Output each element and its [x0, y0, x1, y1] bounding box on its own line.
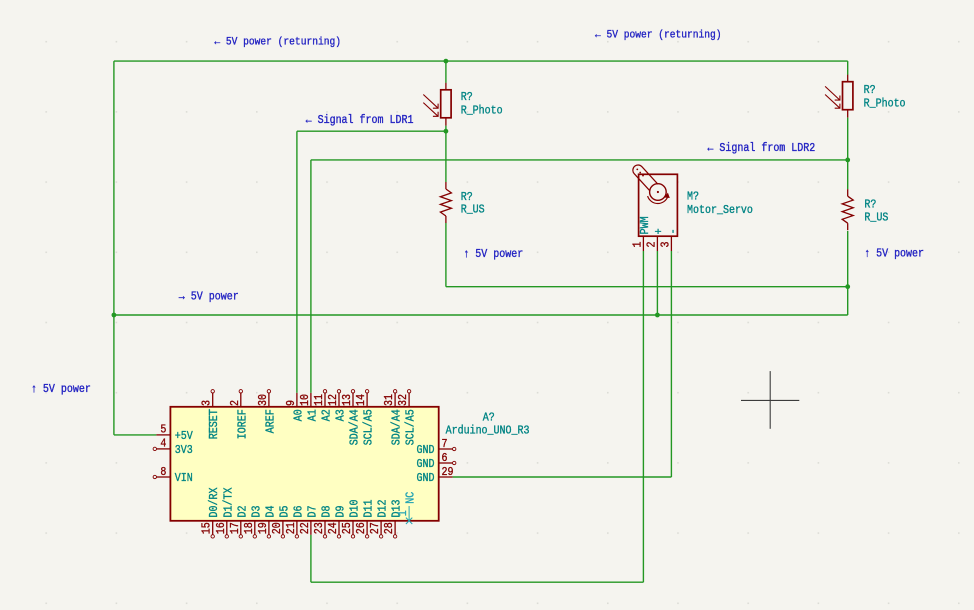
wire bottom horizontal D7-PWM [311, 581, 644, 583]
svg-text:-: - [667, 228, 680, 234]
arduino bottom pin 16 D1/TX [226, 521, 228, 535]
junction servo plus on 5V rail [655, 313, 660, 318]
svg-text:← Signal from LDR1: ← Signal from LDR1 [306, 114, 414, 127]
svg-text:21: 21 [285, 522, 298, 534]
svg-text:13: 13 [341, 394, 354, 406]
arduino top pin 11 A2 [324, 393, 326, 407]
svg-text:3V3: 3V3 [175, 444, 193, 457]
svg-text:A?: A? [483, 412, 495, 425]
wire GND29 to servo minus [453, 476, 672, 478]
svg-text:SCL/A5: SCL/A5 [405, 409, 418, 445]
svg-text:R?: R? [864, 199, 876, 212]
svg-text:D8: D8 [321, 506, 334, 518]
wire servo plus down [656, 251, 658, 315]
arduino bottom pin 26 D11 [366, 521, 368, 535]
svg-text:D11: D11 [363, 499, 376, 517]
svg-text:17: 17 [229, 522, 242, 534]
svg-text:26: 26 [355, 522, 368, 534]
arduino bottom pin 15 D0/RX [212, 521, 214, 535]
svg-text:+: + [653, 228, 666, 234]
svg-text:NC: NC [405, 491, 418, 503]
svg-text:D12: D12 [377, 500, 390, 518]
svg-text:← 5V power (returning): ← 5V power (returning) [595, 29, 722, 42]
svg-text:Motor_Servo: Motor_Servo [687, 204, 753, 217]
svg-text:4: 4 [160, 438, 166, 451]
svg-text:11: 11 [313, 394, 326, 406]
svg-text:+5V: +5V [175, 430, 193, 443]
svg-text:D9: D9 [335, 506, 348, 518]
svg-text:VIN: VIN [175, 472, 193, 485]
resistor R? R_US (left) [440, 182, 485, 223]
arduino bottom pin 24 D9 [338, 521, 340, 535]
svg-text:A1: A1 [307, 409, 320, 421]
junction R_Photo1 top [444, 59, 449, 64]
svg-text:R?: R? [461, 91, 473, 104]
svg-text:2: 2 [646, 242, 659, 248]
svg-text:← Signal from LDR2: ← Signal from LDR2 [707, 143, 815, 156]
arduino body [170, 407, 438, 521]
svg-text:D6: D6 [293, 506, 306, 518]
wire signal LDR1 down to A0 [296, 131, 298, 393]
svg-text:1: 1 [397, 510, 410, 516]
photoresistor R? (LDR2) [825, 75, 905, 118]
svg-text:D5: D5 [279, 506, 292, 518]
svg-text:GND: GND [417, 458, 435, 471]
svg-text:RESET: RESET [209, 409, 222, 439]
photoresistor R? (LDR1) [423, 83, 502, 126]
servo horn arm [633, 165, 658, 191]
junction R_US bottoms [845, 284, 850, 289]
arduino bottom pin 17 D2 [240, 521, 242, 535]
wire R_Photo2 to R_US2 [847, 118, 849, 190]
svg-text:← 5V power (returning): ← 5V power (returning) [214, 36, 341, 49]
junction 5V rail left [112, 313, 117, 318]
wire top drop to R_Photo1 [445, 61, 447, 83]
servo body [639, 174, 678, 236]
svg-text:1: 1 [632, 241, 645, 247]
arduino bottom pin 19 D4 [268, 521, 270, 535]
arduino top pin 13 SDA/A4 [352, 393, 354, 407]
resistor R? R_US (right) [842, 189, 889, 230]
svg-text:↑ 5V power: ↑ 5V power [864, 248, 924, 261]
arduino top pin 32 SCL/A5 [408, 393, 410, 407]
svg-text:↑ 5V power: ↑ 5V power [31, 383, 91, 396]
arduino top pin 2 IOREF [240, 393, 242, 407]
svg-text:29: 29 [442, 466, 454, 479]
svg-text:D7: D7 [307, 506, 320, 518]
svg-text:SCL/A5: SCL/A5 [363, 409, 376, 445]
arduino bottom pin 27 D12 [380, 521, 382, 535]
arduino bottom pin 22 D7 [310, 521, 312, 535]
wire D7 down [310, 535, 312, 582]
junction R_Photo2 bottom / LDR2 [845, 158, 850, 163]
svg-text:R_Photo: R_Photo [864, 98, 906, 111]
svg-text:2: 2 [229, 400, 242, 406]
arduino bottom pin 18 D3 [254, 521, 256, 535]
wire 5V power rail [114, 314, 848, 316]
svg-text:A0: A0 [293, 409, 306, 421]
svg-text:R?: R? [864, 84, 876, 97]
svg-text:10: 10 [299, 394, 312, 406]
arduino left pin 4 3V3 [156, 448, 170, 450]
arduino top pin 9 A0 [296, 393, 298, 407]
arduino top pin 30 AREF [268, 393, 270, 407]
wire signal LDR2 down to A1 [310, 160, 312, 393]
svg-text:19: 19 [257, 522, 270, 534]
svg-text:A3: A3 [335, 409, 348, 421]
svg-text:28: 28 [383, 522, 396, 534]
svg-text:M?: M? [687, 191, 699, 204]
photoresistor LDR2 body [843, 82, 853, 110]
svg-text:Arduino_UNO_R3: Arduino_UNO_R3 [446, 425, 530, 438]
servo horn arm holes [636, 169, 638, 171]
wire R_US2 bottom down to 5V rail [847, 231, 849, 315]
wire R_US1 bottom down [445, 223, 447, 287]
svg-text:20: 20 [271, 522, 284, 534]
wire left vertical 5V [113, 61, 115, 435]
photoresistor LDR1 pin stubs [445, 83, 447, 90]
svg-text:25: 25 [341, 522, 354, 534]
svg-text:14: 14 [355, 394, 368, 406]
svg-text:→ 5V power: → 5V power [179, 291, 239, 304]
arduino right pin 29 GND [439, 476, 453, 478]
svg-text:D10: D10 [349, 500, 362, 518]
arduino bottom pin 25 D10 [352, 521, 354, 535]
svg-text:PWM: PWM [639, 216, 652, 234]
svg-text:8: 8 [160, 466, 166, 479]
svg-text:32: 32 [397, 394, 410, 406]
svg-text:5: 5 [160, 424, 166, 437]
svg-text:22: 22 [299, 522, 312, 534]
servo pin 2 + [656, 236, 658, 251]
svg-text:3: 3 [201, 400, 214, 406]
photoresistor LDR2 light arrows [825, 86, 840, 108]
servo pin 1 PWM [642, 236, 644, 251]
arduino top pin 14 SCL/A5 [366, 393, 368, 407]
wire servo PWM down [642, 251, 644, 582]
arduino bottom pin 20 D5 [282, 521, 284, 535]
svg-text:↑ 5V power: ↑ 5V power [463, 248, 523, 261]
svg-text:15: 15 [201, 522, 214, 534]
wire top right drop to R_Photo2 [847, 61, 849, 75]
wire R_Photo1 to R_US1 [445, 126, 447, 182]
servo horn circle [650, 184, 667, 201]
arduino right pin 7 GND [439, 448, 453, 450]
svg-text:GND: GND [417, 472, 435, 485]
photoresistor LDR1 body [441, 90, 451, 118]
svg-text:SDA/A4: SDA/A4 [391, 409, 404, 445]
wire signal LDR2 horizontal [311, 159, 848, 161]
arduino left pin 5 +5V [156, 434, 170, 436]
arduino bottom pin 28 D13 [394, 521, 396, 535]
svg-text:6: 6 [442, 452, 448, 465]
arduino top pin 3 RESET [212, 393, 214, 407]
svg-text:D2: D2 [237, 506, 250, 518]
photoresistor LDR2 pin stubs [847, 75, 849, 82]
junction R_Photo1 bottom / LDR1 [444, 129, 449, 134]
arduino right pin 6 GND [439, 462, 453, 464]
wire 5V-returning top rail [114, 60, 848, 62]
svg-text:24: 24 [327, 522, 340, 534]
svg-text:R_US: R_US [461, 204, 485, 217]
arduino NC pin 1 (no connect) [408, 506, 410, 521]
servo rotation arc arrow [648, 196, 668, 203]
svg-text:9: 9 [285, 400, 298, 406]
servo motor M? Motor_Servo [632, 165, 753, 251]
svg-text:30: 30 [257, 394, 270, 406]
servo pin 3 - [670, 236, 672, 251]
svg-text:27: 27 [369, 522, 382, 534]
svg-text:AREF: AREF [265, 409, 278, 433]
wire R_US bottoms horizontal [446, 286, 848, 288]
svg-text:R?: R? [461, 191, 473, 204]
svg-text:R_US: R_US [864, 212, 888, 225]
svg-text:D0/RX: D0/RX [209, 487, 222, 517]
svg-text:7: 7 [442, 438, 448, 451]
arduino top pin 12 A3 [338, 393, 340, 407]
svg-text:31: 31 [383, 394, 396, 406]
arduino top pin 31 SDA/A4 [394, 393, 396, 407]
arduino top pin 10 A1 [310, 393, 312, 407]
svg-text:D3: D3 [251, 506, 264, 518]
svg-text:3: 3 [660, 242, 673, 248]
arduino bottom pin 23 D8 [324, 521, 326, 535]
Arduino module A? Arduino_UNO_R3 [153, 390, 529, 539]
svg-text:12: 12 [327, 394, 340, 406]
wire servo minus down [670, 251, 672, 477]
svg-text:18: 18 [243, 522, 256, 534]
photoresistor LDR1 light arrows [423, 95, 438, 117]
svg-text:IOREF: IOREF [237, 409, 250, 439]
arduino bottom pin 21 D6 [296, 521, 298, 535]
svg-text:D1/TX: D1/TX [223, 487, 236, 517]
cursor crosshair [741, 399, 799, 401]
svg-text:23: 23 [313, 522, 326, 534]
wire to +5V pin 5 [114, 434, 156, 436]
svg-text:GND: GND [417, 444, 435, 457]
svg-text:A2: A2 [321, 409, 334, 421]
svg-text:SDA/A4: SDA/A4 [349, 409, 362, 445]
svg-text:D4: D4 [265, 506, 278, 518]
wire signal LDR1 horizontal [297, 130, 446, 132]
arduino left pin 8 VIN [156, 476, 170, 478]
svg-text:16: 16 [215, 522, 228, 534]
svg-text:R_Photo: R_Photo [461, 105, 503, 118]
